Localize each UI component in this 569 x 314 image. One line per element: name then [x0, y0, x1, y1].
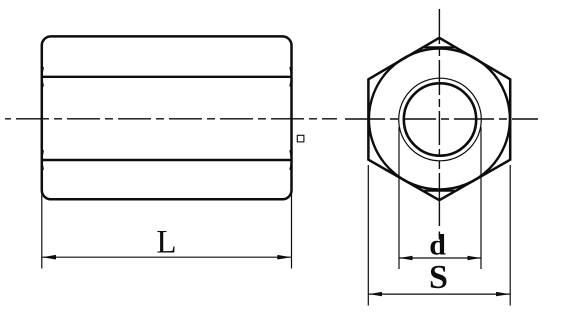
extension line S right [509, 165, 511, 306]
thread major diameter thin circle [399, 78, 482, 161]
arrowhead L right [277, 255, 291, 260]
svg-text:d: d [429, 229, 446, 262]
dimension line L [42, 256, 291, 258]
dimension line d [399, 257, 481, 259]
svg-text:L: L [156, 225, 176, 261]
extension line d right [480, 127, 482, 269]
arrowhead d right [468, 256, 481, 260]
inscribed chamfer circle [369, 49, 510, 190]
extension line L right [291, 191, 293, 269]
wire: vertical centerline of front view [438, 9, 440, 240]
extension line d left [398, 127, 400, 269]
hexagon outline front view [368, 38, 510, 200]
extension line L left [41, 191, 43, 269]
chamfer arc right upper [290, 67, 291, 87]
chamfer chord bottom vertex [424, 190, 456, 192]
chamfer arc right lower [290, 150, 291, 170]
hex facet line lower [43, 159, 291, 161]
wire: horizontal centerline of front view [345, 118, 538, 120]
arrowhead L left [42, 255, 56, 260]
thread hole bold circle [404, 83, 476, 155]
arrowhead S right [496, 292, 510, 296]
hex facet line upper [43, 76, 291, 78]
chamfer chord top vertex [424, 46, 456, 48]
arrowhead d left [399, 256, 412, 260]
chamfer arc left upper [42, 67, 43, 87]
wire: horizontal centerline of side view [5, 118, 337, 120]
chamfer arc left lower [42, 150, 43, 170]
extension line S left [367, 165, 369, 306]
dimension line S [369, 293, 511, 295]
nut body side view outline [42, 36, 292, 199]
node A: small square marker right of side view [297, 135, 304, 142]
svg-text:S: S [429, 259, 448, 296]
arrowhead S left [369, 292, 383, 296]
